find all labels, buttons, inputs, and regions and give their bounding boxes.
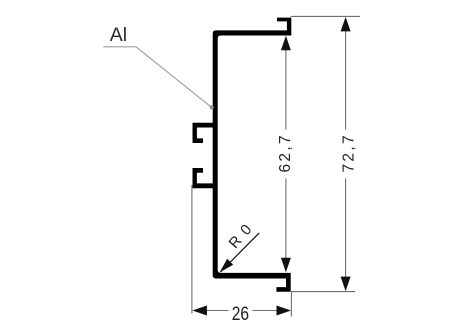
arrow 72,7 top — [341, 17, 351, 32]
aluminium profile cross-section outline — [193, 18, 292, 292]
dimension line 26 right segment — [253, 310, 278, 312]
leader line R 0 — [221, 233, 260, 272]
svg-text:26: 26 — [232, 303, 250, 325]
dimension line 62,7 upper segment — [285, 50, 287, 130]
arrow 62,7 bottom — [281, 258, 291, 273]
dimension line 26 left segment — [206, 310, 229, 312]
arrow 26 right — [277, 306, 292, 316]
svg-text:72,7: 72,7 — [340, 133, 357, 172]
arrow 62,7 top — [281, 36, 291, 51]
extension line bottom for 72,7 — [291, 291, 355, 293]
svg-text:Al: Al — [110, 24, 127, 46]
svg-text:62,7: 62,7 — [277, 133, 294, 172]
extension line right for 26 — [290, 292, 292, 317]
extension line top for 72,7 — [291, 15, 361, 17]
arrow 72,7 bottom — [341, 277, 351, 292]
dimension line 72,7 lower segment — [345, 179, 347, 278]
dimension line 62,7 lower segment — [285, 179, 287, 259]
extension line left for 26 — [191, 185, 193, 314]
dimension line 72,7 upper segment — [345, 31, 347, 130]
leader arrow R 0 — [220, 259, 234, 273]
arrow 26 left — [192, 306, 207, 316]
leader line to Al label — [103, 47, 211, 108]
leader dot on profile — [210, 105, 214, 109]
